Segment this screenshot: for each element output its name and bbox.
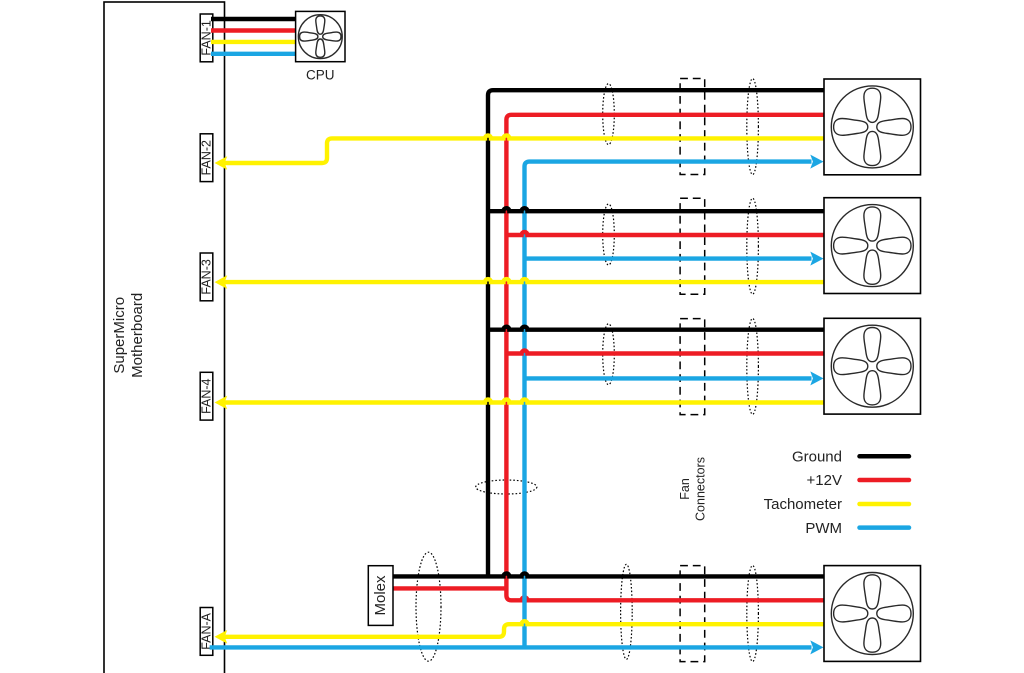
CPU fan box [296,11,345,61]
ground bus vertical [488,90,824,576]
header FAN-4 [200,372,213,420]
fan 1 box [824,79,921,175]
svg-text:FAN-4: FAN-4 [200,378,214,413]
arrow tachometer FAN-4 [215,396,228,410]
fan A PWM wire from FAN-A header [210,645,812,649]
fan2 +12V wire [506,232,824,235]
cable bundle ellipse bus [476,480,537,494]
Molex ground wire to fan A [393,573,824,576]
arrow PWM fan2 [810,252,823,266]
fan3 PWM wire [525,376,812,380]
fan2 tachometer wire to FAN-3 [222,279,824,282]
cable bundle ellipse row3 tall [747,318,759,414]
fan 1 icon [831,86,913,168]
fan A tachometer wire to FAN-A [222,621,824,637]
motherboard outline [104,2,225,673]
svg-text:CPU: CPU [306,68,335,83]
cable bundle ellipse row3 small [603,324,615,385]
header FAN-A [200,608,213,656]
fan 2 icon [831,205,913,287]
fan 3 box [824,318,921,414]
cable bundle ellipse row1 tall [747,79,759,175]
CPU fan wire tachometer [211,40,296,44]
+12V bus vertical with bottom corner to FAN-A [506,115,824,601]
CPU fan wire ground [211,17,296,21]
arrow tachometer FAN-3 [215,275,228,289]
fan connector dashed box rowA [680,566,705,662]
fan2 PWM wire [525,256,812,260]
svg-text:FAN-1: FAN-1 [200,20,214,55]
CPU fan icon [298,15,342,59]
fan3 +12V wire [506,351,824,354]
fan 3 icon [831,325,913,407]
fan3 tachometer wire to FAN-4 [222,400,824,403]
cable bundle ellipse row1 small [603,84,615,145]
svg-text:Molex: Molex [372,575,389,616]
cable bundle ellipse row2 tall [747,198,759,294]
PWM bus vertical with top corner to fan 1 [525,162,812,648]
header FAN-2 [200,134,213,182]
CPU fan wire +12V [211,28,296,32]
Molex +12V stub [393,586,506,590]
svg-text:FAN-A: FAN-A [200,612,214,649]
svg-text:Ground: Ground [792,449,842,466]
fan2 ground wire [488,208,824,211]
fan1 tachometer wire to FAN-2 [222,135,824,163]
svg-text:FAN-2: FAN-2 [200,140,214,175]
fan3 ground wire [488,327,824,330]
svg-text:FAN-3: FAN-3 [200,259,214,294]
CPU fan wire PWM [211,52,296,56]
svg-text:SuperMicroMotherboard: SuperMicroMotherboard [111,293,146,378]
fan A icon [831,573,913,655]
cable bundle ellipse rowA tall [747,566,759,662]
cable bundle ellipse rowA small [621,564,633,659]
fan connector dashed box row1 [680,79,705,175]
fan A box [824,566,921,662]
fan 2 box [824,198,921,294]
header FAN-3 [200,253,213,301]
Molex box [368,566,393,626]
arrow PWM fan3 [810,371,823,385]
fan connector dashed box row3 [680,319,705,415]
cable bundle ellipse molex [416,552,441,661]
arrow PWM fan A [810,640,823,654]
svg-text:PWM: PWM [805,520,842,537]
svg-text:+12V: +12V [807,472,842,489]
arrow tachometer FAN-2 [215,156,228,170]
cable bundle ellipse row2 small [603,204,615,265]
arrow PWM fan1 [810,155,823,169]
arrow tachometer FAN-A [215,630,228,644]
header FAN-1 [200,14,213,62]
fan connector dashed box row2 [680,198,705,294]
svg-text:Tachometer: Tachometer [764,496,842,513]
